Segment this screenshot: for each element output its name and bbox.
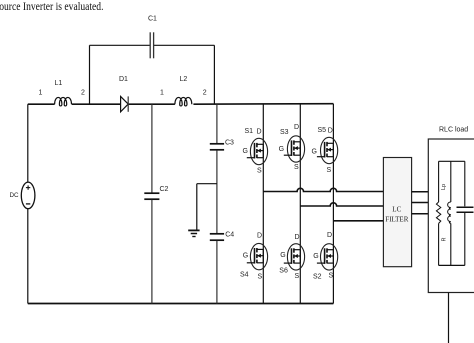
svg-text:Lp: Lp [441, 184, 447, 190]
svg-text:1: 1 [39, 90, 43, 97]
svg-text:D: D [327, 232, 332, 239]
svg-text:L2: L2 [180, 76, 188, 83]
svg-text:D: D [294, 124, 299, 131]
svg-text:G: G [243, 148, 248, 155]
svg-text:S: S [294, 164, 299, 171]
svg-text:S2: S2 [313, 274, 322, 281]
svg-text:G: G [280, 252, 285, 259]
svg-text:D: D [257, 129, 262, 136]
svg-text:S4: S4 [240, 272, 249, 279]
svg-text:D: D [328, 128, 333, 135]
svg-text:S1: S1 [245, 128, 254, 135]
svg-text:LC: LC [392, 206, 401, 214]
svg-text:C3: C3 [225, 140, 234, 147]
svg-text:S6: S6 [279, 268, 288, 275]
svg-text:S3: S3 [280, 129, 289, 136]
svg-text:S: S [327, 167, 332, 174]
svg-text:S: S [258, 274, 263, 281]
svg-text:D: D [257, 233, 262, 240]
svg-text:L1: L1 [55, 80, 63, 87]
svg-text:D1: D1 [119, 76, 128, 83]
svg-text:RLC load: RLC load [439, 127, 468, 134]
svg-text:G: G [243, 253, 248, 260]
svg-text:D: D [295, 234, 300, 241]
svg-text:1: 1 [160, 90, 164, 97]
svg-text:S: S [295, 273, 300, 280]
svg-text:R: R [442, 238, 448, 242]
svg-text:S: S [257, 168, 262, 175]
svg-text:S5: S5 [318, 127, 327, 134]
svg-text:C1: C1 [148, 16, 157, 23]
svg-text:C4: C4 [225, 232, 234, 239]
svg-text:G: G [313, 253, 318, 260]
svg-text:S: S [329, 273, 334, 280]
svg-text:2: 2 [203, 90, 207, 97]
svg-text:source Inverter is evaluated.: source Inverter is evaluated. [0, 1, 104, 13]
svg-text:G: G [312, 149, 317, 156]
svg-text:2: 2 [81, 90, 85, 97]
svg-text:FILTER: FILTER [385, 216, 408, 224]
svg-text:C2: C2 [160, 186, 169, 193]
svg-text:G: G [279, 146, 284, 153]
svg-text:DC: DC [10, 192, 20, 199]
